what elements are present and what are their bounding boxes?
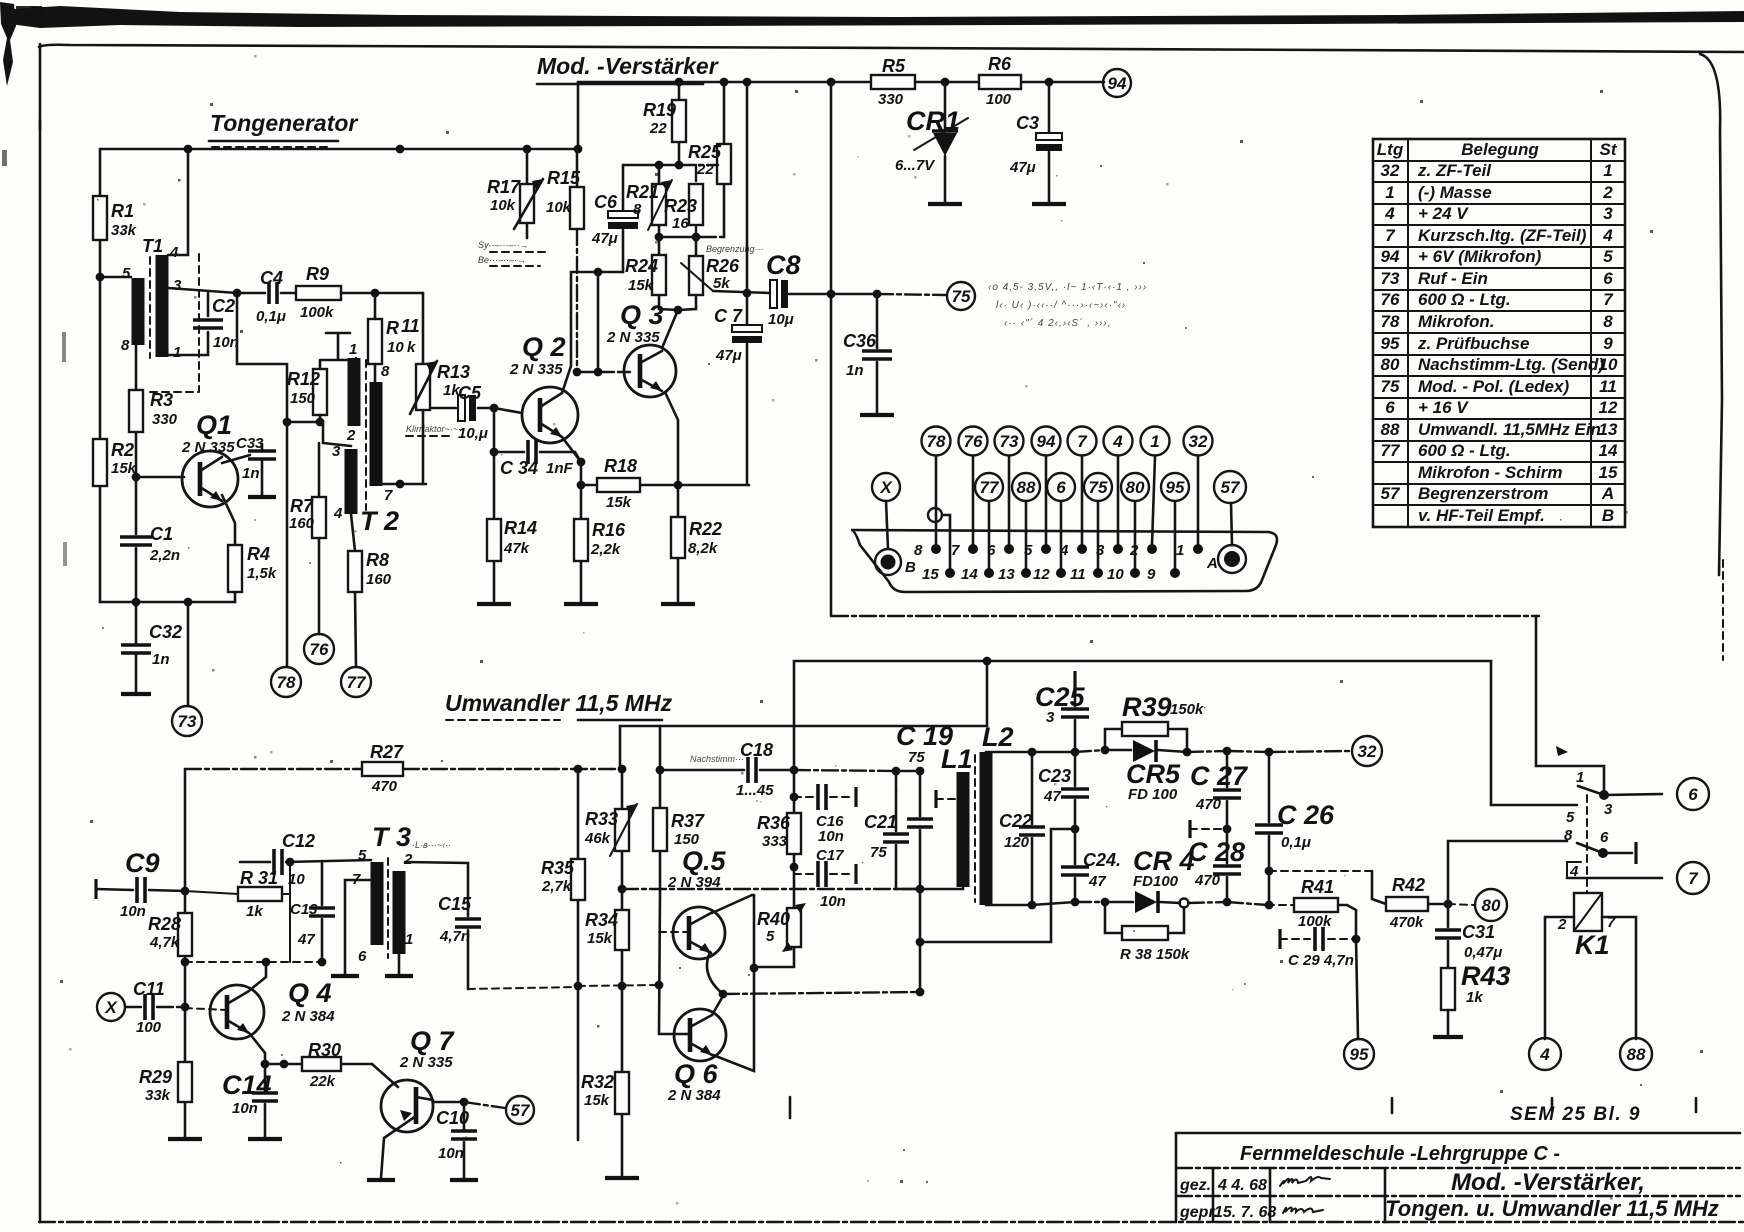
wire y=841 to contact 8 bbox=[1448, 841, 1567, 904]
wire rail corner to y=726 bbox=[620, 661, 987, 769]
junction bbox=[286, 858, 295, 867]
svg-text:73: 73 bbox=[178, 712, 197, 731]
svg-text:78: 78 bbox=[277, 673, 296, 692]
wire dotted y=986 bbox=[468, 987, 578, 989]
junction bbox=[577, 458, 586, 467]
junction bbox=[873, 290, 882, 299]
svg-text:11: 11 bbox=[1070, 566, 1086, 583]
junction bbox=[1021, 568, 1031, 578]
resistor R9 100k bbox=[296, 286, 341, 300]
capacitor C5 10u bbox=[431, 407, 494, 410]
svg-text:76: 76 bbox=[964, 432, 983, 451]
svg-text:Begrenzung···: Begrenzung··· bbox=[706, 244, 764, 254]
junction bbox=[1113, 544, 1123, 554]
terminal 80 bbox=[1121, 473, 1149, 501]
svg-text:Sy··–···–··→: Sy··–···–··→ bbox=[478, 240, 529, 250]
resistor R30 22k bbox=[284, 1063, 372, 1066]
pin A bbox=[1218, 545, 1246, 573]
svg-text:R24: R24 bbox=[625, 256, 658, 276]
wire Q4 base bbox=[185, 1008, 227, 1010]
terminal 1 bbox=[1141, 427, 1170, 456]
junction bbox=[283, 418, 292, 427]
svg-text:R42: R42 bbox=[1392, 875, 1425, 895]
potentiometer R40 5 bbox=[787, 908, 801, 947]
junction bbox=[181, 958, 190, 967]
svg-text:gepr.: gepr. bbox=[1179, 1204, 1218, 1221]
potentiometer R26 5k bbox=[678, 237, 696, 310]
svg-text:32: 32 bbox=[1358, 742, 1377, 761]
svg-text:73: 73 bbox=[1381, 269, 1400, 288]
svg-text:88: 88 bbox=[1381, 420, 1400, 439]
svg-text:33k: 33k bbox=[111, 222, 137, 239]
relay K1 bbox=[1574, 893, 1602, 931]
svg-text:73: 73 bbox=[1000, 432, 1019, 451]
wire: bottom rail bbox=[100, 601, 235, 604]
signature gepr bbox=[1283, 1208, 1323, 1214]
svg-text:94: 94 bbox=[1108, 74, 1127, 93]
resistor R39 150k bbox=[1105, 729, 1187, 752]
terminal 6 bbox=[1047, 473, 1075, 501]
boundary dash line around connector bbox=[832, 615, 1539, 617]
svg-text:6: 6 bbox=[1056, 478, 1066, 497]
svg-text:R17: R17 bbox=[487, 177, 521, 197]
ground bbox=[928, 202, 962, 206]
svg-text:100: 100 bbox=[986, 91, 1012, 108]
svg-text:10n: 10n bbox=[213, 334, 239, 351]
svg-text:R25: R25 bbox=[688, 142, 722, 162]
svg-text:R33: R33 bbox=[585, 809, 618, 829]
svg-text:CR5: CR5 bbox=[1126, 759, 1181, 789]
resistor R12 150 bbox=[313, 369, 327, 415]
junction bbox=[184, 145, 193, 154]
resistor R43 1k bbox=[1441, 968, 1455, 1010]
junction bbox=[675, 161, 684, 170]
svg-text:Q 3: Q 3 bbox=[620, 300, 664, 330]
capacitor C12 10 bbox=[240, 860, 371, 862]
junction bbox=[743, 289, 752, 298]
wire T1 pin4 bbox=[168, 149, 188, 255]
svg-text:+ 24 V: + 24 V bbox=[1418, 204, 1469, 223]
wire Q6 emitter bbox=[713, 895, 754, 1071]
terminal 75 bbox=[1084, 473, 1112, 501]
svg-text:12: 12 bbox=[1599, 398, 1618, 417]
svg-text:R21: R21 bbox=[626, 182, 659, 202]
capacitor C19 75 bbox=[919, 771, 922, 992]
wire: left column x=185 bbox=[184, 769, 187, 1138]
svg-text:6: 6 bbox=[1688, 785, 1698, 804]
svg-text:R3: R3 bbox=[150, 390, 173, 410]
wire Q7 collector bbox=[433, 1101, 464, 1104]
svg-text:Ltg: Ltg bbox=[1377, 140, 1404, 159]
terminal 4 bbox=[1104, 427, 1133, 456]
junction bbox=[1598, 848, 1608, 858]
svg-text:2 N 335: 2 N 335 bbox=[181, 439, 235, 456]
svg-text:4: 4 bbox=[1539, 1045, 1550, 1064]
junction bbox=[827, 78, 836, 87]
potentiometer R17 10k bbox=[526, 149, 529, 238]
svg-text:C 7: C 7 bbox=[714, 306, 743, 326]
svg-text:C13: C13 bbox=[290, 901, 318, 918]
terminal 76 bbox=[959, 427, 988, 456]
svg-text:8: 8 bbox=[633, 201, 642, 218]
svg-text:95: 95 bbox=[1166, 478, 1185, 497]
svg-text:Nachstimm···: Nachstimm··· bbox=[690, 754, 744, 764]
capacitor C25 3 bbox=[1073, 671, 1076, 695]
capacitor C1 2,2n bbox=[135, 477, 138, 602]
svg-text:10k: 10k bbox=[546, 199, 572, 216]
junction bbox=[881, 555, 896, 570]
svg-text:11: 11 bbox=[401, 316, 420, 336]
junction bbox=[655, 981, 664, 990]
svg-text:8: 8 bbox=[381, 363, 390, 380]
svg-text:L1: L1 bbox=[941, 744, 973, 774]
svg-text:Q 6: Q 6 bbox=[674, 1059, 719, 1089]
svg-text:+ 16 V: + 16 V bbox=[1418, 398, 1469, 417]
terminal 88 bbox=[1620, 1038, 1652, 1070]
resistor R27 470 bbox=[362, 762, 403, 776]
ground bbox=[121, 692, 151, 696]
diode CR4 FD100 bbox=[1135, 891, 1157, 913]
svg-text:10n: 10n bbox=[820, 893, 846, 910]
svg-text:R43: R43 bbox=[1461, 961, 1511, 991]
resistor R31 1k bbox=[185, 865, 290, 962]
capacitor C22 120 bbox=[1031, 752, 1034, 905]
svg-text:57: 57 bbox=[511, 1101, 531, 1120]
svg-text:R22: R22 bbox=[689, 519, 722, 539]
junction bbox=[618, 885, 627, 894]
svg-text:C 28: C 28 bbox=[1188, 837, 1245, 867]
svg-text:1n: 1n bbox=[846, 362, 864, 379]
junction bbox=[916, 988, 925, 997]
stub terminator at C27/C28 node bbox=[1188, 820, 1191, 838]
junction bbox=[132, 598, 141, 607]
resistor R23 16 bbox=[695, 165, 697, 237]
svg-text:75: 75 bbox=[1381, 377, 1400, 396]
resistor R19 22 bbox=[678, 82, 681, 165]
svg-text:3: 3 bbox=[1046, 709, 1055, 726]
svg-text:k: k bbox=[407, 339, 416, 356]
terminal 4 bbox=[1529, 1038, 1561, 1070]
ground bbox=[477, 602, 511, 606]
junction bbox=[184, 598, 193, 607]
junction bbox=[618, 982, 627, 991]
svg-text:A: A bbox=[1601, 484, 1614, 503]
wire Q2 emitter to R16 bbox=[562, 437, 581, 602]
svg-text:13: 13 bbox=[1599, 420, 1618, 439]
junction bbox=[941, 78, 950, 87]
wire: +rail Mod-Verstaerker bbox=[578, 81, 1104, 84]
svg-text:88: 88 bbox=[1017, 478, 1036, 497]
svg-text:R2: R2 bbox=[111, 440, 134, 460]
svg-text:R41: R41 bbox=[1301, 877, 1334, 897]
svg-text:R29: R29 bbox=[139, 1067, 172, 1087]
wire Q4 collector bbox=[250, 962, 266, 990]
svg-text:Kurzsch.ltg. (ZF-Teil): Kurzsch.ltg. (ZF-Teil) bbox=[1418, 226, 1587, 245]
svg-text:76: 76 bbox=[310, 640, 329, 659]
resistor R28 4,7k bbox=[178, 913, 192, 956]
resistor R11 10k bbox=[368, 319, 382, 364]
wire T1 pin3 to node bbox=[168, 288, 237, 293]
junction bbox=[675, 78, 684, 87]
wire Q3 collector bbox=[662, 310, 678, 348]
svg-text:88: 88 bbox=[1627, 1045, 1646, 1064]
junction bbox=[1101, 746, 1110, 755]
wire Q3 base dash bbox=[577, 371, 598, 373]
svg-text:470k: 470k bbox=[1389, 914, 1424, 931]
transistor Q1 2N335 bbox=[182, 451, 238, 507]
svg-text:C10: C10 bbox=[436, 1108, 469, 1128]
svg-text:Mikrofon.: Mikrofon. bbox=[1418, 312, 1495, 331]
junction bbox=[1028, 901, 1037, 910]
junction bbox=[1224, 551, 1240, 567]
junction bbox=[931, 544, 941, 554]
junction bbox=[1265, 901, 1274, 910]
junction bbox=[790, 863, 799, 872]
capacitor C32 1n bbox=[135, 602, 138, 693]
svg-text:5: 5 bbox=[122, 265, 131, 282]
junction bbox=[1147, 544, 1157, 554]
terminal 95 bbox=[1161, 473, 1189, 501]
capacitor C21 75 bbox=[896, 771, 920, 889]
fold tick bbox=[789, 1097, 792, 1118]
svg-text:R36: R36 bbox=[757, 813, 791, 833]
svg-text:470: 470 bbox=[1195, 796, 1222, 813]
svg-text:R1: R1 bbox=[111, 201, 134, 221]
svg-text:22: 22 bbox=[696, 161, 714, 178]
potentiometer R33 46k bbox=[621, 769, 624, 889]
svg-text:1: 1 bbox=[1603, 161, 1612, 180]
wire to terminal 6 bbox=[1604, 794, 1662, 795]
svg-text:C14: C14 bbox=[222, 1070, 272, 1100]
svg-text:80: 80 bbox=[1482, 896, 1501, 915]
svg-text:7: 7 bbox=[951, 542, 960, 559]
junction bbox=[1077, 544, 1087, 554]
svg-text:12: 12 bbox=[1033, 566, 1050, 583]
svg-text:R: R bbox=[386, 318, 399, 338]
connector body (D-sub) bbox=[851, 530, 1277, 592]
svg-text:160: 160 bbox=[289, 515, 315, 532]
svg-text:1: 1 bbox=[405, 931, 413, 948]
svg-text:100k: 100k bbox=[300, 304, 334, 321]
wire y=871 bypass bbox=[1269, 870, 1372, 872]
svg-text:77: 77 bbox=[347, 673, 367, 692]
ground bbox=[248, 1137, 282, 1141]
junction bbox=[1223, 898, 1232, 907]
transistor Q6 2N384 bbox=[674, 1009, 726, 1061]
terminal 77 bbox=[975, 473, 1003, 501]
transistor Q4 2N384 bbox=[210, 985, 264, 1039]
svg-text:4,7n: 4,7n bbox=[439, 928, 470, 945]
svg-text:7: 7 bbox=[1077, 432, 1088, 451]
svg-text:15k: 15k bbox=[587, 930, 613, 947]
svg-text:T 3: T 3 bbox=[372, 822, 411, 852]
resistor R42 470k bbox=[1372, 899, 1448, 904]
resistor R24 15k bbox=[659, 237, 678, 310]
svg-text:C25: C25 bbox=[1035, 682, 1086, 712]
svg-text:C11: C11 bbox=[133, 979, 165, 999]
svg-text:3: 3 bbox=[1604, 801, 1613, 818]
svg-text:R28: R28 bbox=[148, 914, 181, 934]
svg-text:v. HF-Teil Empf.: v. HF-Teil Empf. bbox=[1418, 506, 1545, 525]
capacitor C9 10n bbox=[94, 879, 97, 899]
svg-text:R13: R13 bbox=[437, 362, 470, 382]
svg-text:6: 6 bbox=[1600, 829, 1609, 846]
signature gez bbox=[1280, 1177, 1330, 1186]
terminal 76 bbox=[304, 634, 334, 664]
svg-text:100: 100 bbox=[136, 1019, 162, 1036]
svg-text:l‹· U‹ )·‹‹··/ ^···›·‹~›‹·"‹: l‹· U‹ )·‹‹··/ ^···›·‹~›‹·"‹› bbox=[996, 300, 1126, 311]
ground bbox=[564, 602, 598, 606]
svg-text:Q 2: Q 2 bbox=[522, 332, 566, 362]
wire Q5 collector bbox=[712, 895, 754, 913]
svg-text:Nachstimm-Ltg. (Send): Nachstimm-Ltg. (Send) bbox=[1418, 355, 1604, 374]
svg-text:75: 75 bbox=[870, 844, 887, 861]
svg-text:R26: R26 bbox=[706, 256, 740, 276]
svg-text:C9: C9 bbox=[125, 848, 160, 878]
junction bbox=[573, 368, 582, 377]
junction bbox=[1041, 544, 1051, 554]
svg-text:10n: 10n bbox=[438, 1145, 464, 1162]
svg-text:7: 7 bbox=[1385, 226, 1396, 245]
resistor R1 33k bbox=[93, 196, 107, 240]
svg-text:CR1: CR1 bbox=[906, 106, 960, 136]
junction bbox=[916, 938, 925, 947]
wire L1 bottom bbox=[920, 887, 963, 889]
ground bbox=[450, 1178, 478, 1182]
transformer T2 bbox=[348, 358, 361, 426]
svg-text:10: 10 bbox=[387, 339, 404, 356]
junction bbox=[790, 793, 799, 802]
capacitor C17 10n bbox=[794, 873, 814, 875]
junction bbox=[655, 161, 664, 170]
junction bbox=[1093, 568, 1103, 578]
svg-text:470: 470 bbox=[371, 778, 398, 795]
ground bbox=[1433, 1035, 1463, 1039]
svg-text:R8: R8 bbox=[366, 550, 389, 570]
wire boundary to switch bbox=[1536, 616, 1604, 795]
wire T3 pin1 ground bbox=[398, 954, 401, 975]
svg-text:5k: 5k bbox=[713, 275, 730, 292]
junction bbox=[692, 233, 701, 242]
svg-text:Klirrfaktor~·~·: Klirrfaktor~·~· bbox=[406, 424, 461, 434]
wire relay pin2 to terminal 4 bbox=[1545, 917, 1574, 1039]
capacitor C23 47 bbox=[1074, 752, 1077, 829]
svg-text:9: 9 bbox=[1603, 334, 1613, 353]
svg-text:47μ: 47μ bbox=[591, 230, 618, 247]
potentiometer R21 8 bbox=[658, 165, 661, 237]
svg-text:C17: C17 bbox=[816, 847, 844, 864]
svg-text:FD 100: FD 100 bbox=[1128, 786, 1178, 803]
svg-text:X: X bbox=[879, 478, 893, 497]
svg-text:R9: R9 bbox=[306, 264, 329, 284]
svg-text:1: 1 bbox=[1150, 432, 1159, 451]
junction bbox=[743, 78, 752, 87]
capacitor C10 10n bbox=[463, 1102, 466, 1178]
svg-text:5: 5 bbox=[1603, 247, 1613, 266]
svg-text:R6: R6 bbox=[988, 54, 1012, 74]
svg-text:C18: C18 bbox=[740, 740, 773, 760]
terminal 6 bbox=[1677, 778, 1709, 810]
wire: top rail Tongenerator bbox=[100, 148, 578, 151]
svg-text:8: 8 bbox=[1603, 312, 1613, 331]
svg-text:R14: R14 bbox=[504, 518, 537, 538]
switch contact 8-6 bbox=[1577, 843, 1603, 853]
junction bbox=[460, 1098, 469, 1107]
terminal 32 bbox=[1352, 736, 1382, 766]
svg-text:R37: R37 bbox=[671, 811, 705, 831]
svg-text:Umwandler 11,5 MHz: Umwandler 11,5 MHz bbox=[445, 690, 673, 716]
capacitor C14 10n bbox=[264, 1064, 267, 1138]
junction bbox=[916, 885, 925, 894]
svg-text:15k: 15k bbox=[606, 494, 632, 511]
wire x=659 column bbox=[659, 893, 688, 1034]
wire dash y=994 to tank bbox=[723, 992, 920, 994]
pin15 loop bbox=[928, 508, 942, 522]
capacitor C16 10n bbox=[794, 796, 814, 798]
svg-text:330: 330 bbox=[152, 411, 178, 428]
svg-text:2: 2 bbox=[1602, 183, 1613, 202]
terminal 7 bbox=[1677, 862, 1709, 894]
svg-text:R4: R4 bbox=[247, 544, 270, 564]
wire junction row y=237 bbox=[659, 236, 700, 239]
svg-text:Mod. - Pol. (Ledex): Mod. - Pol. (Ledex) bbox=[1418, 377, 1569, 396]
svg-text:150: 150 bbox=[290, 390, 316, 407]
svg-text:R23: R23 bbox=[664, 196, 697, 216]
svg-text:R16: R16 bbox=[592, 520, 626, 540]
svg-text:4,7k: 4,7k bbox=[149, 934, 180, 951]
transistor Q3 2N335 bbox=[624, 345, 676, 397]
terminal 73 bbox=[995, 427, 1024, 456]
resistor R4 1,5k bbox=[222, 495, 235, 602]
svg-text:Mod. -Verstärker,: Mod. -Verstärker, bbox=[1451, 1169, 1645, 1196]
svg-text:FD100: FD100 bbox=[1133, 873, 1179, 890]
svg-text:z. Prüfbuchse: z. Prüfbuchse bbox=[1417, 334, 1529, 353]
capacitor C34 1nF bbox=[494, 452, 581, 462]
junction bbox=[1183, 748, 1192, 757]
capacitor C31 0,47u bbox=[1447, 904, 1450, 968]
potentiometer R13 1k bbox=[422, 293, 425, 484]
wire T2 pin2/pin3 bbox=[323, 422, 351, 446]
terminal 57 bbox=[1214, 471, 1246, 503]
pin table frame bbox=[1373, 139, 1625, 527]
svg-text:470: 470 bbox=[1194, 872, 1221, 889]
svg-text:C 29 4,7n: C 29 4,7n bbox=[1288, 952, 1354, 969]
svg-text:32: 32 bbox=[1189, 432, 1208, 451]
svg-text:R32: R32 bbox=[581, 1072, 614, 1092]
junction bbox=[1130, 568, 1140, 578]
capacitor C3 47u bbox=[1048, 82, 1051, 202]
junction bbox=[945, 568, 955, 578]
svg-text:2: 2 bbox=[403, 851, 413, 868]
junction bbox=[968, 544, 978, 554]
capacitor C13 47 bbox=[321, 861, 324, 962]
svg-text:R35: R35 bbox=[541, 858, 575, 878]
svg-text:46k: 46k bbox=[584, 830, 611, 847]
svg-text:600 Ω - Ltg.: 600 Ω - Ltg. bbox=[1418, 441, 1511, 460]
svg-text:R40: R40 bbox=[757, 909, 790, 929]
junction bbox=[1170, 568, 1180, 578]
svg-text:95: 95 bbox=[1350, 1045, 1369, 1064]
resistor R32 15k bbox=[621, 986, 624, 1177]
svg-text:94: 94 bbox=[1381, 247, 1400, 266]
svg-text:8: 8 bbox=[1564, 827, 1573, 844]
svg-text:10k: 10k bbox=[490, 197, 516, 214]
wire dashed y=962 bbox=[185, 961, 322, 963]
capacitor C28 470 bbox=[1226, 829, 1229, 902]
svg-text:2 N 394: 2 N 394 bbox=[667, 874, 721, 891]
svg-text:C15: C15 bbox=[438, 894, 472, 914]
wire Q5 emitter / Q6 collector bbox=[707, 952, 723, 994]
